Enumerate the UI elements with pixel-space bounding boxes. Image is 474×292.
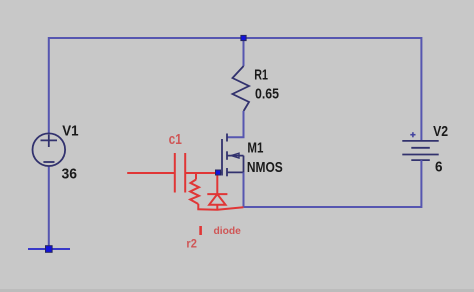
- node gate junction: [216, 170, 221, 175]
- svg-text:V2: V2: [433, 124, 448, 140]
- svg-text:NMOS: NMOS: [247, 160, 283, 176]
- r2 bottom lead: [197, 204, 199, 209]
- c1 right lead to gate node: [185, 172, 218, 174]
- gate lead: [218, 172, 223, 174]
- transistor M1 (NMOS): [218, 134, 244, 177]
- body to source tie: [243, 156, 245, 173]
- resistor r2 (red): [190, 173, 199, 209]
- wire M1 source down to bottom rail: [243, 172, 245, 207]
- svg-text:0.65: 0.65: [255, 87, 279, 103]
- voltage source V1: [33, 133, 66, 166]
- battery V2 plus sign: [410, 132, 415, 137]
- body arrow: [231, 153, 239, 158]
- c1 left lead: [127, 172, 175, 174]
- wire left (top to V1 plus terminal): [48, 37, 50, 134]
- body stub: [227, 155, 244, 157]
- diode triangle: [209, 194, 225, 205]
- svg-text:r2: r2: [186, 239, 197, 251]
- gate bar: [221, 139, 223, 176]
- r2 zigzag: [190, 180, 199, 205]
- wire bottom-left stub: [28, 248, 70, 250]
- channel segment body: [226, 151, 228, 160]
- c1 right plate: [184, 153, 186, 193]
- channel segment source: [226, 168, 228, 176]
- diode cathode lead from gate node: [216, 172, 218, 194]
- svg-text:diode: diode: [214, 225, 242, 237]
- wire V1 bottom lead: [48, 166, 50, 249]
- channel segment drain: [226, 134, 228, 142]
- svg-text:c1: c1: [169, 132, 182, 148]
- wire top to R1 (lead): [243, 38, 245, 66]
- battery V2: [402, 141, 438, 160]
- red tick marker: [199, 226, 202, 235]
- node bottom-left junction: [46, 246, 53, 253]
- wire V2 bottom to M1 source (bottom rail): [244, 160, 422, 207]
- resistor R1: [233, 66, 250, 111]
- svg-text:6: 6: [435, 159, 443, 175]
- wire top (V1 top to V2 top): [49, 37, 422, 39]
- capacitor c1 (red) leads: [127, 153, 218, 193]
- node top junction: [241, 35, 246, 40]
- diode (red): [207, 172, 227, 209]
- svg-text:R1: R1: [254, 68, 268, 84]
- wire right (top to V2 plus): [420, 37, 422, 141]
- svg-text:36: 36: [62, 166, 78, 182]
- svg-text:V1: V1: [62, 123, 78, 139]
- diode cathode bar: [207, 193, 227, 195]
- diode anode lead: [216, 205, 218, 210]
- wire red bottom return to rail: [197, 207, 243, 210]
- source stub: [227, 171, 244, 173]
- c1 left plate: [174, 153, 176, 193]
- wire R1 bottom to M1 drain: [227, 111, 244, 137]
- svg-text:M1: M1: [247, 141, 263, 157]
- r2 top lead: [195, 173, 197, 180]
